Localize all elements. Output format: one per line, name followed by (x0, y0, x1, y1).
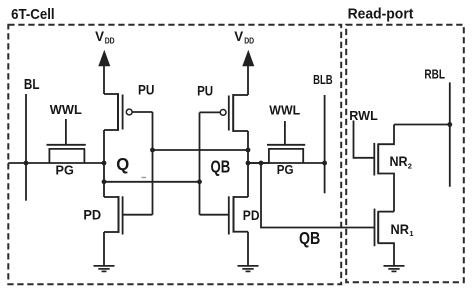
junction BLB / QB row (322, 161, 327, 166)
power VDD left arrow (98, 50, 110, 94)
label RWL (349, 108, 378, 123)
svg-text:1: 1 (409, 229, 413, 238)
ground read-port (384, 266, 405, 272)
ground right (238, 266, 259, 272)
svg-text:DD: DD (105, 36, 115, 45)
6T-Cell dashed boundary box (8, 25, 341, 285)
node BL label (24, 77, 40, 93)
label PU right (197, 83, 213, 98)
wire BL vertical (25, 94, 27, 201)
label PU left (138, 82, 154, 97)
label QB wire (299, 228, 320, 248)
label NR2 (390, 154, 412, 170)
wire QB row horizontal (QB rail to BLB) (248, 162, 325, 164)
svg-text:NR: NR (390, 154, 408, 169)
wire right inverter input (gate line) (199, 112, 201, 214)
transistor PU left (PMOS pull-up U-left) (104, 93, 153, 131)
junction QB tap (259, 161, 264, 166)
wire BLB vertical (324, 95, 326, 193)
svg-text:V: V (95, 29, 104, 44)
label WWL right (269, 104, 300, 118)
Read-port dashed boundary box (346, 25, 464, 283)
junction bottom cross / right gate (197, 179, 202, 184)
svg-text:WWL: WWL (50, 103, 82, 117)
transistor PD right (NMOS pull-down, mirrored) (200, 196, 249, 265)
transistor PG left (pass gate NMOS) (47, 145, 86, 163)
svg-text:BL: BL (24, 77, 40, 93)
node QB label (211, 157, 231, 177)
power VDD right arrow (242, 50, 254, 95)
svg-text:6T-Cell: 6T-Cell (11, 6, 55, 23)
wire cross-couple top (QB rail to left gate) (153, 149, 249, 151)
label 6T-Cell (11, 6, 55, 23)
label PG right (277, 162, 294, 177)
node Q label (116, 154, 129, 174)
svg-text:QB: QB (299, 228, 320, 248)
node BLB label (313, 72, 333, 87)
wire RWL stub to NR2 gate (354, 121, 375, 158)
power VDD left label (95, 29, 115, 45)
label PD left (83, 207, 101, 223)
svg-text:Read-port: Read-port (348, 6, 414, 23)
wire WWL right gate stub (284, 121, 286, 145)
label PG left (56, 162, 74, 177)
wire WWL left gate stub (65, 119, 67, 145)
svg-text:V: V (234, 29, 243, 44)
transistor PU right (PMOS pull-up, mirrored) (200, 94, 249, 132)
label WWL left (50, 103, 82, 117)
junction top cross / left gate (150, 148, 155, 153)
junction QB node / PG row (246, 161, 251, 166)
svg-text:Q: Q (116, 154, 129, 174)
power VDD right label (234, 29, 254, 45)
wire Q rail (PU drain to PD drain) (103, 130, 105, 197)
wire QB rail (247, 131, 249, 197)
svg-text:PU: PU (197, 83, 213, 98)
svg-text:PU: PU (138, 82, 154, 97)
svg-text:WWL: WWL (269, 104, 300, 118)
stray mark (142, 177, 147, 179)
svg-text:DD: DD (244, 36, 254, 45)
node RBL label (424, 66, 445, 81)
junction BL/wire (24, 161, 29, 166)
wire cross-couple bottom (Q rail to right gate) (104, 181, 200, 183)
svg-text:2: 2 (408, 161, 412, 170)
transistor NR1 (read NMOS lower) (375, 209, 395, 266)
svg-text:PD: PD (83, 207, 101, 223)
svg-text:QB: QB (211, 157, 231, 177)
wire left inverter input (gate line) (152, 112, 154, 215)
junction top cross / QB rail (246, 148, 251, 153)
label PD right (243, 207, 260, 223)
svg-text:PD: PD (243, 207, 260, 223)
wire left Q-row horizontal (border to Q rail) (8, 162, 104, 164)
wire RBL vertical (449, 82, 451, 186)
label Read-port (348, 6, 414, 23)
svg-text:PG: PG (277, 162, 294, 177)
svg-text:PG: PG (56, 162, 74, 177)
junction Q node / PG (102, 161, 107, 166)
junction Q / cross wire (102, 179, 107, 184)
svg-text:BLB: BLB (313, 72, 333, 87)
transistor NR2 (read NMOS upper) (374, 125, 394, 212)
transistor PD left (NMOS pull-down) (104, 196, 153, 265)
wire NR2 drain to RBL (394, 124, 450, 126)
transistor PG right (pass gate NMOS) (248, 145, 305, 163)
ground left (94, 266, 115, 272)
junction RBL (447, 122, 452, 127)
svg-text:NR: NR (391, 221, 410, 237)
wire QB to read port (tap down + horizontal) (261, 163, 375, 228)
label NR1 (391, 221, 414, 238)
svg-text:RBL: RBL (424, 66, 445, 81)
